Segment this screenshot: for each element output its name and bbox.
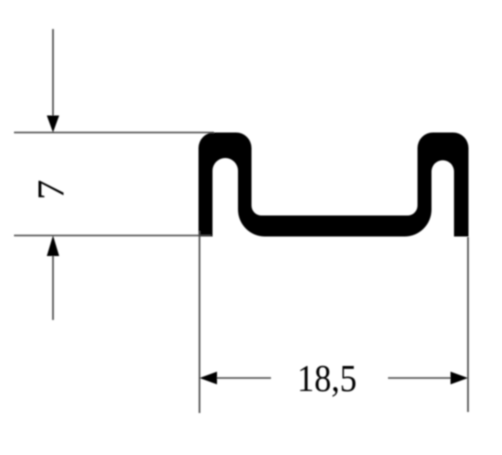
vertical dimension line upper segment (52, 29, 54, 120)
horizontal dimension line right segment (388, 377, 455, 379)
right vertical extension line (18,5 dim) (467, 237, 469, 412)
right arrowhead (451, 372, 469, 385)
down arrowhead (47, 116, 59, 133)
left arrowhead (200, 372, 218, 385)
bottom extension line (7 dim lower reference) (14, 235, 211, 237)
top extension line (7 dim upper reference) (14, 132, 214, 134)
horizontal dimension line left segment (213, 377, 271, 379)
svg-text:18,5: 18,5 (297, 357, 357, 399)
rail profile cross-section (black hat channel with hooks) (199, 133, 469, 237)
up arrowhead (47, 236, 59, 257)
vertical dimension line lower segment (52, 250, 54, 320)
left vertical extension line (18,5 dim) (199, 231, 201, 413)
svg-text:7: 7 (30, 180, 72, 200)
